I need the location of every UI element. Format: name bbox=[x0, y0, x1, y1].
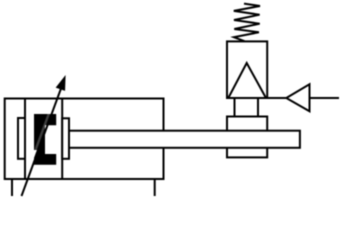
cushion adjustment arrow faint casing band bbox=[19, 89, 59, 197]
valve body bbox=[227, 41, 267, 98]
cushion adjustment arrow white casing over piston seal corner bbox=[19, 89, 59, 197]
spring bbox=[234, 4, 260, 42]
mounting foot right bbox=[154, 179, 156, 196]
piston cushion seal (black C) bbox=[34, 114, 56, 165]
cushion adjustment arrow line bbox=[22, 89, 62, 197]
piston boss bbox=[62, 118, 69, 159]
valve triangle bbox=[228, 63, 266, 98]
cylinder left cap line bbox=[24, 99, 26, 180]
cylinder body bbox=[5, 99, 164, 180]
mounting foot left bbox=[11, 179, 13, 196]
piston face line bbox=[61, 99, 63, 180]
valve block on rod bbox=[227, 117, 267, 158]
piston rod bbox=[69, 131, 300, 148]
cushion adjustment arrowhead bbox=[57, 78, 64, 90]
pilot line right bbox=[310, 97, 340, 99]
pilot triangle bbox=[286, 84, 309, 111]
cushion sleeve rectangle bbox=[18, 118, 25, 159]
valve stem bbox=[235, 98, 259, 117]
pilot line left bbox=[267, 97, 286, 99]
